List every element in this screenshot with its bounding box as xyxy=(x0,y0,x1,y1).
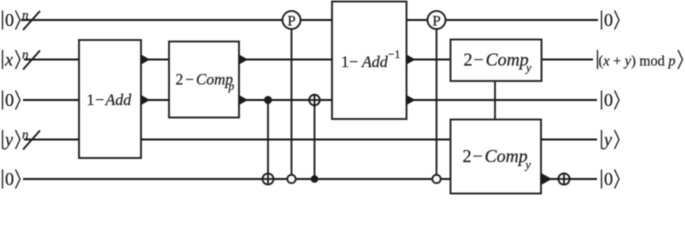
wire q2 xyxy=(24,59,593,61)
gate box U5 2-Comp_y lower xyxy=(451,120,542,194)
svg-text:n: n xyxy=(22,47,29,62)
bus slash q2 xyxy=(22,47,40,70)
input label ket-x q2 xyxy=(3,50,21,70)
svg-text:n: n xyxy=(22,127,29,142)
bus slash q4 xyxy=(22,127,40,150)
connector triangle U5 out q5 xyxy=(541,173,552,185)
control dot CNOT1 on q3 xyxy=(264,96,272,104)
target oplus CNOT2 on q3 xyxy=(309,95,320,106)
svg-text:0: 0 xyxy=(604,10,613,30)
svg-text:P: P xyxy=(432,14,440,30)
svg-text:0: 0 xyxy=(5,169,14,189)
wire control P1 vertical xyxy=(291,29,293,179)
target oplus final on q5 xyxy=(558,173,569,184)
target oplus CNOT1 on q5 xyxy=(263,174,274,185)
connector triangle U1 out q2 xyxy=(141,55,150,65)
svg-text:(x + y) mod p: (x + y) mod p xyxy=(599,54,676,70)
svg-text:0: 0 xyxy=(604,169,613,189)
output label ket-y q4 xyxy=(602,130,620,150)
gate box U1 1-Add xyxy=(79,40,141,158)
connector triangle U1 out q3 xyxy=(141,95,150,105)
wire comp-y link vertical xyxy=(494,81,496,120)
open control P2 on q5 xyxy=(432,175,440,183)
svg-text:x: x xyxy=(4,50,13,70)
gate box U2 2-Comp_p xyxy=(169,42,239,118)
output label ket (x+y) mod p q2 xyxy=(598,50,683,70)
svg-text:0: 0 xyxy=(5,90,14,110)
wire q3 xyxy=(23,99,597,101)
svg-text:P: P xyxy=(287,14,295,30)
wire q1 xyxy=(21,19,598,21)
svg-text:2−Comp: 2−Comp xyxy=(463,146,528,166)
input label ket-y q4 xyxy=(3,130,21,150)
svg-text:2−Comp: 2−Comp xyxy=(464,50,529,70)
wire control CNOT1 vertical xyxy=(267,100,269,179)
output label ket0 q1 xyxy=(602,10,620,30)
svg-text:y: y xyxy=(3,130,13,150)
input label ket0 q1 xyxy=(3,10,21,30)
svg-text:y: y xyxy=(602,130,612,150)
output label ket0 q5 xyxy=(602,169,620,189)
svg-text:n: n xyxy=(22,7,29,22)
control dot CNOT2 on q5 xyxy=(311,175,319,183)
gate P1 phase xyxy=(283,11,301,30)
svg-text:−1: −1 xyxy=(388,49,400,61)
svg-text:1−Add: 1−Add xyxy=(341,54,389,71)
connector triangle U2 out q2 xyxy=(239,55,248,65)
wire q4 xyxy=(24,139,597,141)
gate P2 phase xyxy=(428,11,446,30)
output label ket0 q3 xyxy=(602,90,620,110)
input label ket0 q5 xyxy=(3,169,21,189)
wire control P2 vertical xyxy=(436,29,438,179)
input label ket0 q3 xyxy=(3,90,21,110)
gate box U3 1-Add inverse xyxy=(332,2,407,120)
wire q5 xyxy=(23,178,597,180)
svg-text:1−Add: 1−Add xyxy=(87,92,133,109)
connector triangle U2 out q3 xyxy=(239,95,248,105)
svg-text:y: y xyxy=(525,158,532,172)
svg-text:p: p xyxy=(228,81,235,93)
svg-text:0: 0 xyxy=(5,10,14,30)
open control P1 on q5 xyxy=(287,175,295,183)
svg-text:y: y xyxy=(525,61,532,75)
connector triangle U3 out q2 xyxy=(407,55,416,65)
wire control CNOT2 vertical xyxy=(314,100,316,179)
connector triangle U3 out q3 xyxy=(407,95,416,105)
gate box U4 2-Comp_y upper xyxy=(451,40,542,82)
bus slash q1 xyxy=(22,7,40,30)
svg-text:0: 0 xyxy=(604,90,613,110)
